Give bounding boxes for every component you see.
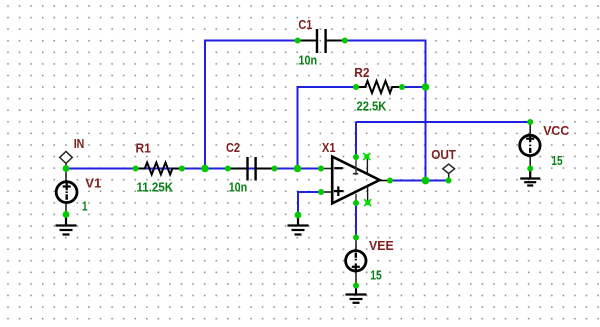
IN port <box>60 151 73 168</box>
node junction R2-C1 x425.5 <box>422 83 430 91</box>
svg-text:VEE: VEE <box>369 238 394 253</box>
wire main horizontal IN to op-amp inverting input <box>66 168 321 170</box>
pin dot VCC top <box>527 119 533 125</box>
svg-text:R1: R1 <box>136 141 151 156</box>
pin dot V1 ground <box>63 211 70 218</box>
source VCC <box>520 122 540 169</box>
node OUT junction x425.5 <box>422 177 430 185</box>
pin dot C1 left <box>295 38 301 44</box>
svg-text:15: 15 <box>551 153 562 168</box>
pin dot R2 left <box>353 84 359 90</box>
resistor R1 <box>136 163 182 175</box>
node IN junction <box>63 165 70 172</box>
pin dot op-amp output <box>387 178 393 184</box>
wire vertical feedback left branch x=205 <box>204 41 206 169</box>
wire vertical feedback right branch x=425.5 <box>425 40 427 181</box>
svg-text:C2: C2 <box>226 140 240 155</box>
resistor R2 <box>356 81 402 93</box>
pin dot OUT port <box>446 178 452 184</box>
ground below V1 <box>56 215 77 235</box>
ground below VCC <box>520 169 540 186</box>
ground below op-amp + input <box>288 215 309 235</box>
svg-text:15: 15 <box>370 268 382 283</box>
svg-text:IN: IN <box>74 136 85 151</box>
svg-text:10n: 10n <box>299 52 318 67</box>
svg-text:11.25K: 11.25K <box>137 179 174 194</box>
pin dot VEE ground <box>353 283 359 289</box>
svg-text:VCC: VCC <box>543 123 570 138</box>
pin dot R1 left <box>133 166 139 172</box>
svg-text:10n: 10n <box>229 180 248 195</box>
source VEE <box>346 238 366 286</box>
ground below VEE <box>346 286 367 303</box>
capacitor C1 <box>298 29 345 53</box>
wire op-amp V- pin down to VEE <box>355 203 357 238</box>
pin dot C2 right <box>272 166 278 172</box>
pin dot op-amp inverting input <box>318 166 324 172</box>
node A junction x297.5 <box>294 165 302 173</box>
pin dot VCC ground <box>527 166 533 172</box>
wire horizontal to VCC <box>356 121 530 123</box>
wire horizontal to C1 left <box>204 40 298 42</box>
wire output to OUT <box>390 180 449 182</box>
pin dot C2 left <box>225 166 231 172</box>
NC pin marker X top <box>363 153 370 160</box>
pin dot C1 right <box>342 38 348 44</box>
svg-text:1: 1 <box>82 198 88 213</box>
svg-text:OUT: OUT <box>431 147 456 162</box>
pin dot op-amp V- <box>353 200 359 206</box>
node junction x205 <box>201 165 209 173</box>
capacitor C2 <box>228 157 275 181</box>
svg-text:X1: X1 <box>322 140 336 155</box>
wire op-amp + input to ground branch <box>298 192 321 215</box>
wire horizontal from C1 right to x=425.5 <box>345 40 426 42</box>
svg-text:V1: V1 <box>85 176 101 191</box>
pin dot op-amp non-inverting input <box>318 189 324 195</box>
OUT port <box>443 164 455 180</box>
svg-text:C1: C1 <box>298 17 312 32</box>
pin dot ground at + input branch <box>295 212 302 219</box>
source V1 <box>56 169 77 215</box>
pin dot op-amp V+ <box>353 154 359 160</box>
wire vertical from node A up to R2 left <box>297 87 299 169</box>
pin dot VEE top <box>353 235 359 241</box>
NC pin marker X bottom <box>364 199 371 206</box>
op-amp X1 <box>321 157 390 204</box>
wire op-amp V+ pin up <box>355 122 357 157</box>
pin dot R1 right <box>179 166 185 172</box>
pin dot R2 right <box>399 84 405 90</box>
wire R2 right to junction <box>402 86 426 88</box>
svg-text:R2: R2 <box>354 65 369 80</box>
wire horizontal to R2 left <box>297 86 357 88</box>
svg-text:22.5K: 22.5K <box>357 98 387 113</box>
